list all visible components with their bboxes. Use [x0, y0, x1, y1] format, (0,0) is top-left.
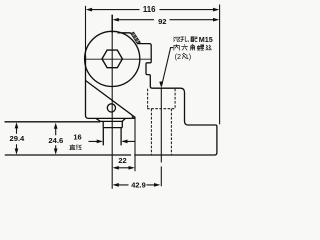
svg-text:116: 116 — [143, 5, 156, 14]
svg-text:24.6: 24.6 — [48, 136, 63, 145]
svg-text:M15: M15 — [199, 35, 213, 44]
svg-text:16: 16 — [73, 132, 81, 141]
svg-text:): ) — [189, 52, 191, 61]
svg-text:29.4: 29.4 — [10, 134, 26, 143]
svg-text:92: 92 — [158, 17, 166, 26]
svg-text:(2: (2 — [175, 52, 182, 61]
svg-text:22: 22 — [118, 156, 126, 165]
svg-text:42.9: 42.9 — [131, 180, 145, 189]
